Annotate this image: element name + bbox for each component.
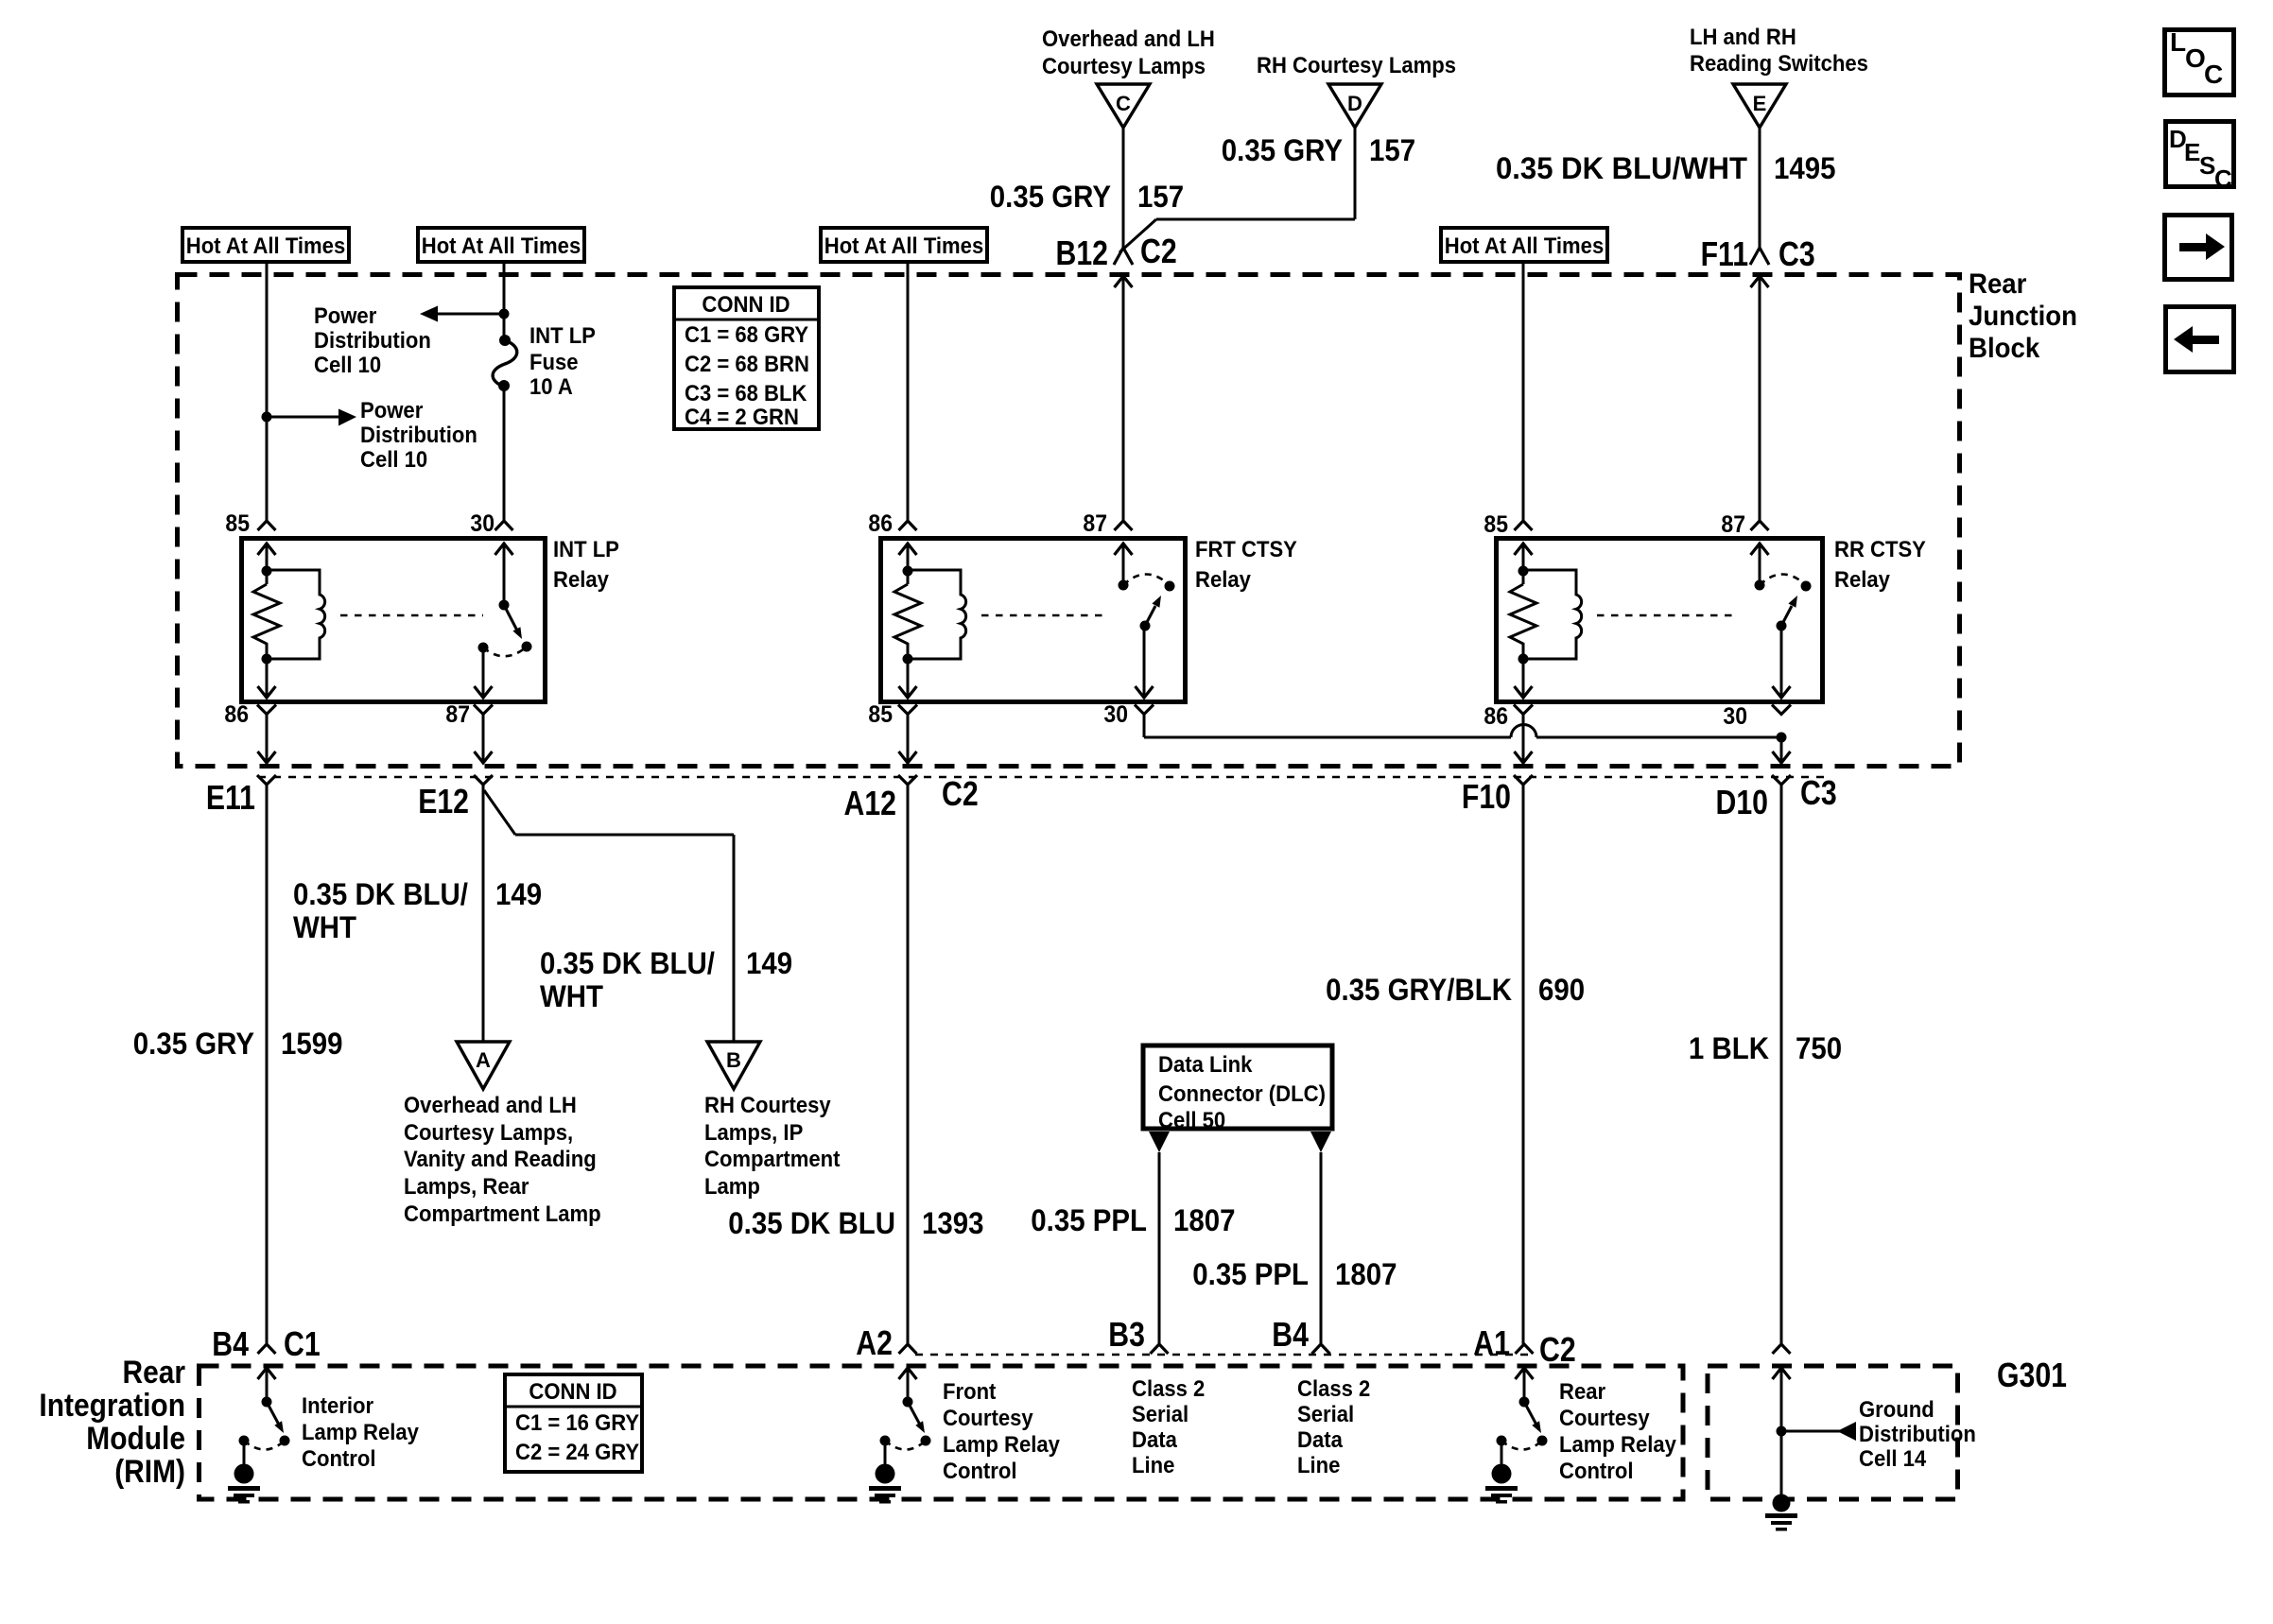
- svg-text:E: E: [1753, 92, 1767, 115]
- svg-text:INT LP: INT LP: [553, 537, 619, 562]
- svg-text:F10: F10: [1462, 777, 1511, 816]
- svg-text:A: A: [476, 1048, 491, 1072]
- svg-text:C4 = 2 GRN: C4 = 2 GRN: [685, 405, 799, 430]
- svg-text:1393: 1393: [922, 1206, 984, 1240]
- svg-text:0.35 DK BLU: 0.35 DK BLU: [728, 1206, 895, 1240]
- svg-text:750: 750: [1796, 1031, 1842, 1065]
- svg-text:Overhead and LH: Overhead and LH: [1042, 26, 1215, 52]
- svg-text:D10: D10: [1716, 783, 1769, 821]
- svg-text:Class 2: Class 2: [1297, 1376, 1370, 1402]
- svg-text:87: 87: [1721, 511, 1745, 538]
- svg-text:FRT CTSY: FRT CTSY: [1195, 537, 1297, 562]
- svg-text:C: C: [1116, 92, 1131, 115]
- svg-text:C2: C2: [1140, 232, 1177, 270]
- svg-text:Junction: Junction: [1969, 301, 2077, 332]
- svg-text:Distribution: Distribution: [1859, 1422, 1976, 1447]
- svg-text:86: 86: [868, 510, 893, 537]
- svg-text:Rear: Rear: [1969, 268, 2027, 300]
- svg-text:Rear: Rear: [1559, 1379, 1605, 1405]
- svg-text:C2 = 24 GRY: C2 = 24 GRY: [515, 1440, 639, 1465]
- svg-text:Lamp Relay: Lamp Relay: [1559, 1432, 1677, 1458]
- svg-text:85: 85: [868, 701, 893, 728]
- svg-text:C2: C2: [1539, 1330, 1576, 1369]
- svg-text:Integration: Integration: [39, 1388, 185, 1424]
- svg-text:C3: C3: [1800, 773, 1837, 812]
- svg-text:Hot At All Times: Hot At All Times: [422, 233, 581, 259]
- svg-text:Ground: Ground: [1859, 1397, 1935, 1423]
- svg-text:86: 86: [1484, 703, 1508, 730]
- svg-text:Lamps, Rear: Lamps, Rear: [404, 1174, 529, 1200]
- svg-text:O: O: [2185, 43, 2206, 73]
- svg-text:85: 85: [225, 510, 250, 537]
- svg-text:0.35 DK BLU/WHT: 0.35 DK BLU/WHT: [1496, 151, 1747, 185]
- svg-text:CONN ID: CONN ID: [702, 292, 789, 318]
- svg-text:149: 149: [495, 877, 542, 911]
- svg-text:Rear: Rear: [123, 1355, 186, 1391]
- svg-text:C: C: [2204, 60, 2223, 89]
- svg-text:A2: A2: [856, 1323, 893, 1362]
- svg-text:1807: 1807: [1173, 1203, 1236, 1237]
- svg-text:690: 690: [1538, 973, 1585, 1007]
- svg-text:Courtesy: Courtesy: [1559, 1406, 1650, 1431]
- svg-text:Line: Line: [1297, 1453, 1340, 1478]
- svg-text:Interior: Interior: [302, 1393, 373, 1419]
- svg-text:Control: Control: [302, 1446, 376, 1472]
- svg-text:0.35 GRY: 0.35 GRY: [990, 180, 1111, 214]
- svg-text:0.35 GRY/BLK: 0.35 GRY/BLK: [1326, 973, 1512, 1007]
- svg-text:LH and RH: LH and RH: [1690, 25, 1796, 50]
- svg-text:Data: Data: [1132, 1427, 1177, 1453]
- svg-text:C2 = 68 BRN: C2 = 68 BRN: [685, 352, 809, 377]
- svg-text:0.35 GRY: 0.35 GRY: [133, 1027, 254, 1061]
- svg-text:Courtesy Lamps,: Courtesy Lamps,: [404, 1120, 573, 1146]
- svg-text:Relay: Relay: [1834, 567, 1890, 593]
- svg-text:Module: Module: [86, 1421, 185, 1457]
- svg-text:Lamps, IP: Lamps, IP: [704, 1120, 803, 1146]
- svg-text:Block: Block: [1969, 333, 2039, 364]
- svg-text:Cell 10: Cell 10: [314, 353, 381, 378]
- svg-text:A1: A1: [1473, 1323, 1510, 1362]
- svg-text:Control: Control: [1559, 1459, 1634, 1484]
- svg-text:A12: A12: [844, 784, 897, 822]
- svg-text:Compartment Lamp: Compartment Lamp: [404, 1201, 601, 1227]
- svg-text:Data Link: Data Link: [1158, 1052, 1253, 1078]
- svg-text:157: 157: [1137, 180, 1184, 214]
- svg-text:Courtesy Lamps: Courtesy Lamps: [1042, 54, 1206, 79]
- svg-text:D: D: [1347, 92, 1362, 115]
- svg-text:157: 157: [1369, 133, 1415, 167]
- svg-text:Lamp: Lamp: [704, 1174, 760, 1200]
- svg-text:Relay: Relay: [553, 567, 609, 593]
- svg-text:E12: E12: [418, 782, 469, 821]
- svg-text:Lamp Relay: Lamp Relay: [943, 1432, 1061, 1458]
- svg-text:0.35 DK BLU/: 0.35 DK BLU/: [540, 946, 715, 980]
- svg-text:E11: E11: [206, 778, 255, 817]
- svg-text:RR CTSY: RR CTSY: [1834, 537, 1926, 562]
- svg-text:Serial: Serial: [1132, 1402, 1189, 1427]
- svg-text:C: C: [2214, 164, 2232, 193]
- svg-text:87: 87: [1083, 510, 1107, 537]
- svg-text:Serial: Serial: [1297, 1402, 1354, 1427]
- svg-text:1495: 1495: [1774, 151, 1836, 185]
- svg-text:INT LP: INT LP: [529, 323, 596, 349]
- svg-text:C3 = 68 BLK: C3 = 68 BLK: [685, 381, 807, 406]
- svg-text:Connector (DLC): Connector (DLC): [1158, 1081, 1326, 1107]
- svg-text:CONN ID: CONN ID: [529, 1379, 616, 1405]
- svg-text:Hot At All Times: Hot At All Times: [1445, 233, 1605, 259]
- svg-text:0.35 DK BLU/: 0.35 DK BLU/: [293, 877, 468, 911]
- svg-text:B3: B3: [1108, 1315, 1145, 1354]
- svg-text:0.35 PPL: 0.35 PPL: [1192, 1257, 1309, 1291]
- svg-text:0.35 GRY: 0.35 GRY: [1222, 133, 1343, 167]
- svg-text:87: 87: [445, 701, 470, 728]
- svg-text:Overhead and LH: Overhead and LH: [404, 1093, 577, 1118]
- svg-text:Relay: Relay: [1195, 567, 1251, 593]
- svg-text:Fuse: Fuse: [529, 350, 579, 375]
- svg-text:10 A: 10 A: [529, 374, 573, 400]
- svg-text:Class 2: Class 2: [1132, 1376, 1205, 1402]
- svg-text:(RIM): (RIM): [114, 1454, 185, 1490]
- svg-text:Line: Line: [1132, 1453, 1174, 1478]
- svg-text:Power: Power: [360, 398, 423, 423]
- svg-text:149: 149: [746, 946, 792, 980]
- svg-text:Hot At All Times: Hot At All Times: [186, 233, 346, 259]
- svg-text:C1: C1: [284, 1324, 321, 1363]
- svg-text:RH Courtesy Lamps: RH Courtesy Lamps: [1257, 53, 1456, 78]
- svg-text:S: S: [2199, 151, 2215, 180]
- svg-text:G301: G301: [1997, 1356, 2067, 1394]
- svg-text:30: 30: [1103, 701, 1128, 728]
- svg-text:B12: B12: [1056, 233, 1109, 272]
- svg-text:C3: C3: [1778, 234, 1815, 273]
- svg-text:86: 86: [224, 701, 249, 728]
- svg-text:B: B: [726, 1048, 741, 1072]
- svg-text:Front: Front: [943, 1379, 996, 1405]
- svg-text:0.35 PPL: 0.35 PPL: [1031, 1203, 1147, 1237]
- svg-text:Reading Switches: Reading Switches: [1690, 51, 1868, 77]
- svg-text:Hot At All Times: Hot At All Times: [824, 233, 984, 259]
- svg-text:C2: C2: [942, 774, 979, 813]
- svg-text:Courtesy: Courtesy: [943, 1406, 1033, 1431]
- svg-text:L: L: [2170, 27, 2186, 57]
- svg-text:30: 30: [470, 510, 495, 537]
- svg-text:C1 = 68 GRY: C1 = 68 GRY: [685, 322, 808, 348]
- svg-text:F11: F11: [1701, 234, 1748, 273]
- svg-text:Vanity and Reading: Vanity and Reading: [404, 1147, 597, 1172]
- svg-text:C1 = 16 GRY: C1 = 16 GRY: [515, 1410, 639, 1436]
- svg-text:Data: Data: [1297, 1427, 1343, 1453]
- svg-text:Cell 50: Cell 50: [1158, 1108, 1225, 1133]
- svg-text:1599: 1599: [281, 1027, 343, 1061]
- svg-text:Distribution: Distribution: [314, 328, 431, 354]
- svg-text:1 BLK: 1 BLK: [1689, 1031, 1769, 1065]
- svg-text:E: E: [2184, 138, 2200, 166]
- svg-text:Control: Control: [943, 1459, 1017, 1484]
- svg-text:Cell 14: Cell 14: [1859, 1446, 1927, 1472]
- svg-text:B4: B4: [1272, 1315, 1309, 1354]
- svg-text:WHT: WHT: [540, 979, 603, 1013]
- svg-text:Lamp Relay: Lamp Relay: [302, 1420, 419, 1445]
- svg-text:30: 30: [1723, 703, 1747, 730]
- svg-text:85: 85: [1484, 511, 1508, 538]
- svg-text:1807: 1807: [1335, 1257, 1397, 1291]
- svg-text:B4: B4: [212, 1324, 249, 1363]
- svg-text:WHT: WHT: [293, 910, 356, 944]
- svg-text:Distribution: Distribution: [360, 423, 477, 448]
- svg-text:RH Courtesy: RH Courtesy: [704, 1093, 831, 1118]
- svg-text:Power: Power: [314, 303, 376, 329]
- svg-text:Compartment: Compartment: [704, 1147, 841, 1172]
- svg-text:Cell 10: Cell 10: [360, 447, 427, 473]
